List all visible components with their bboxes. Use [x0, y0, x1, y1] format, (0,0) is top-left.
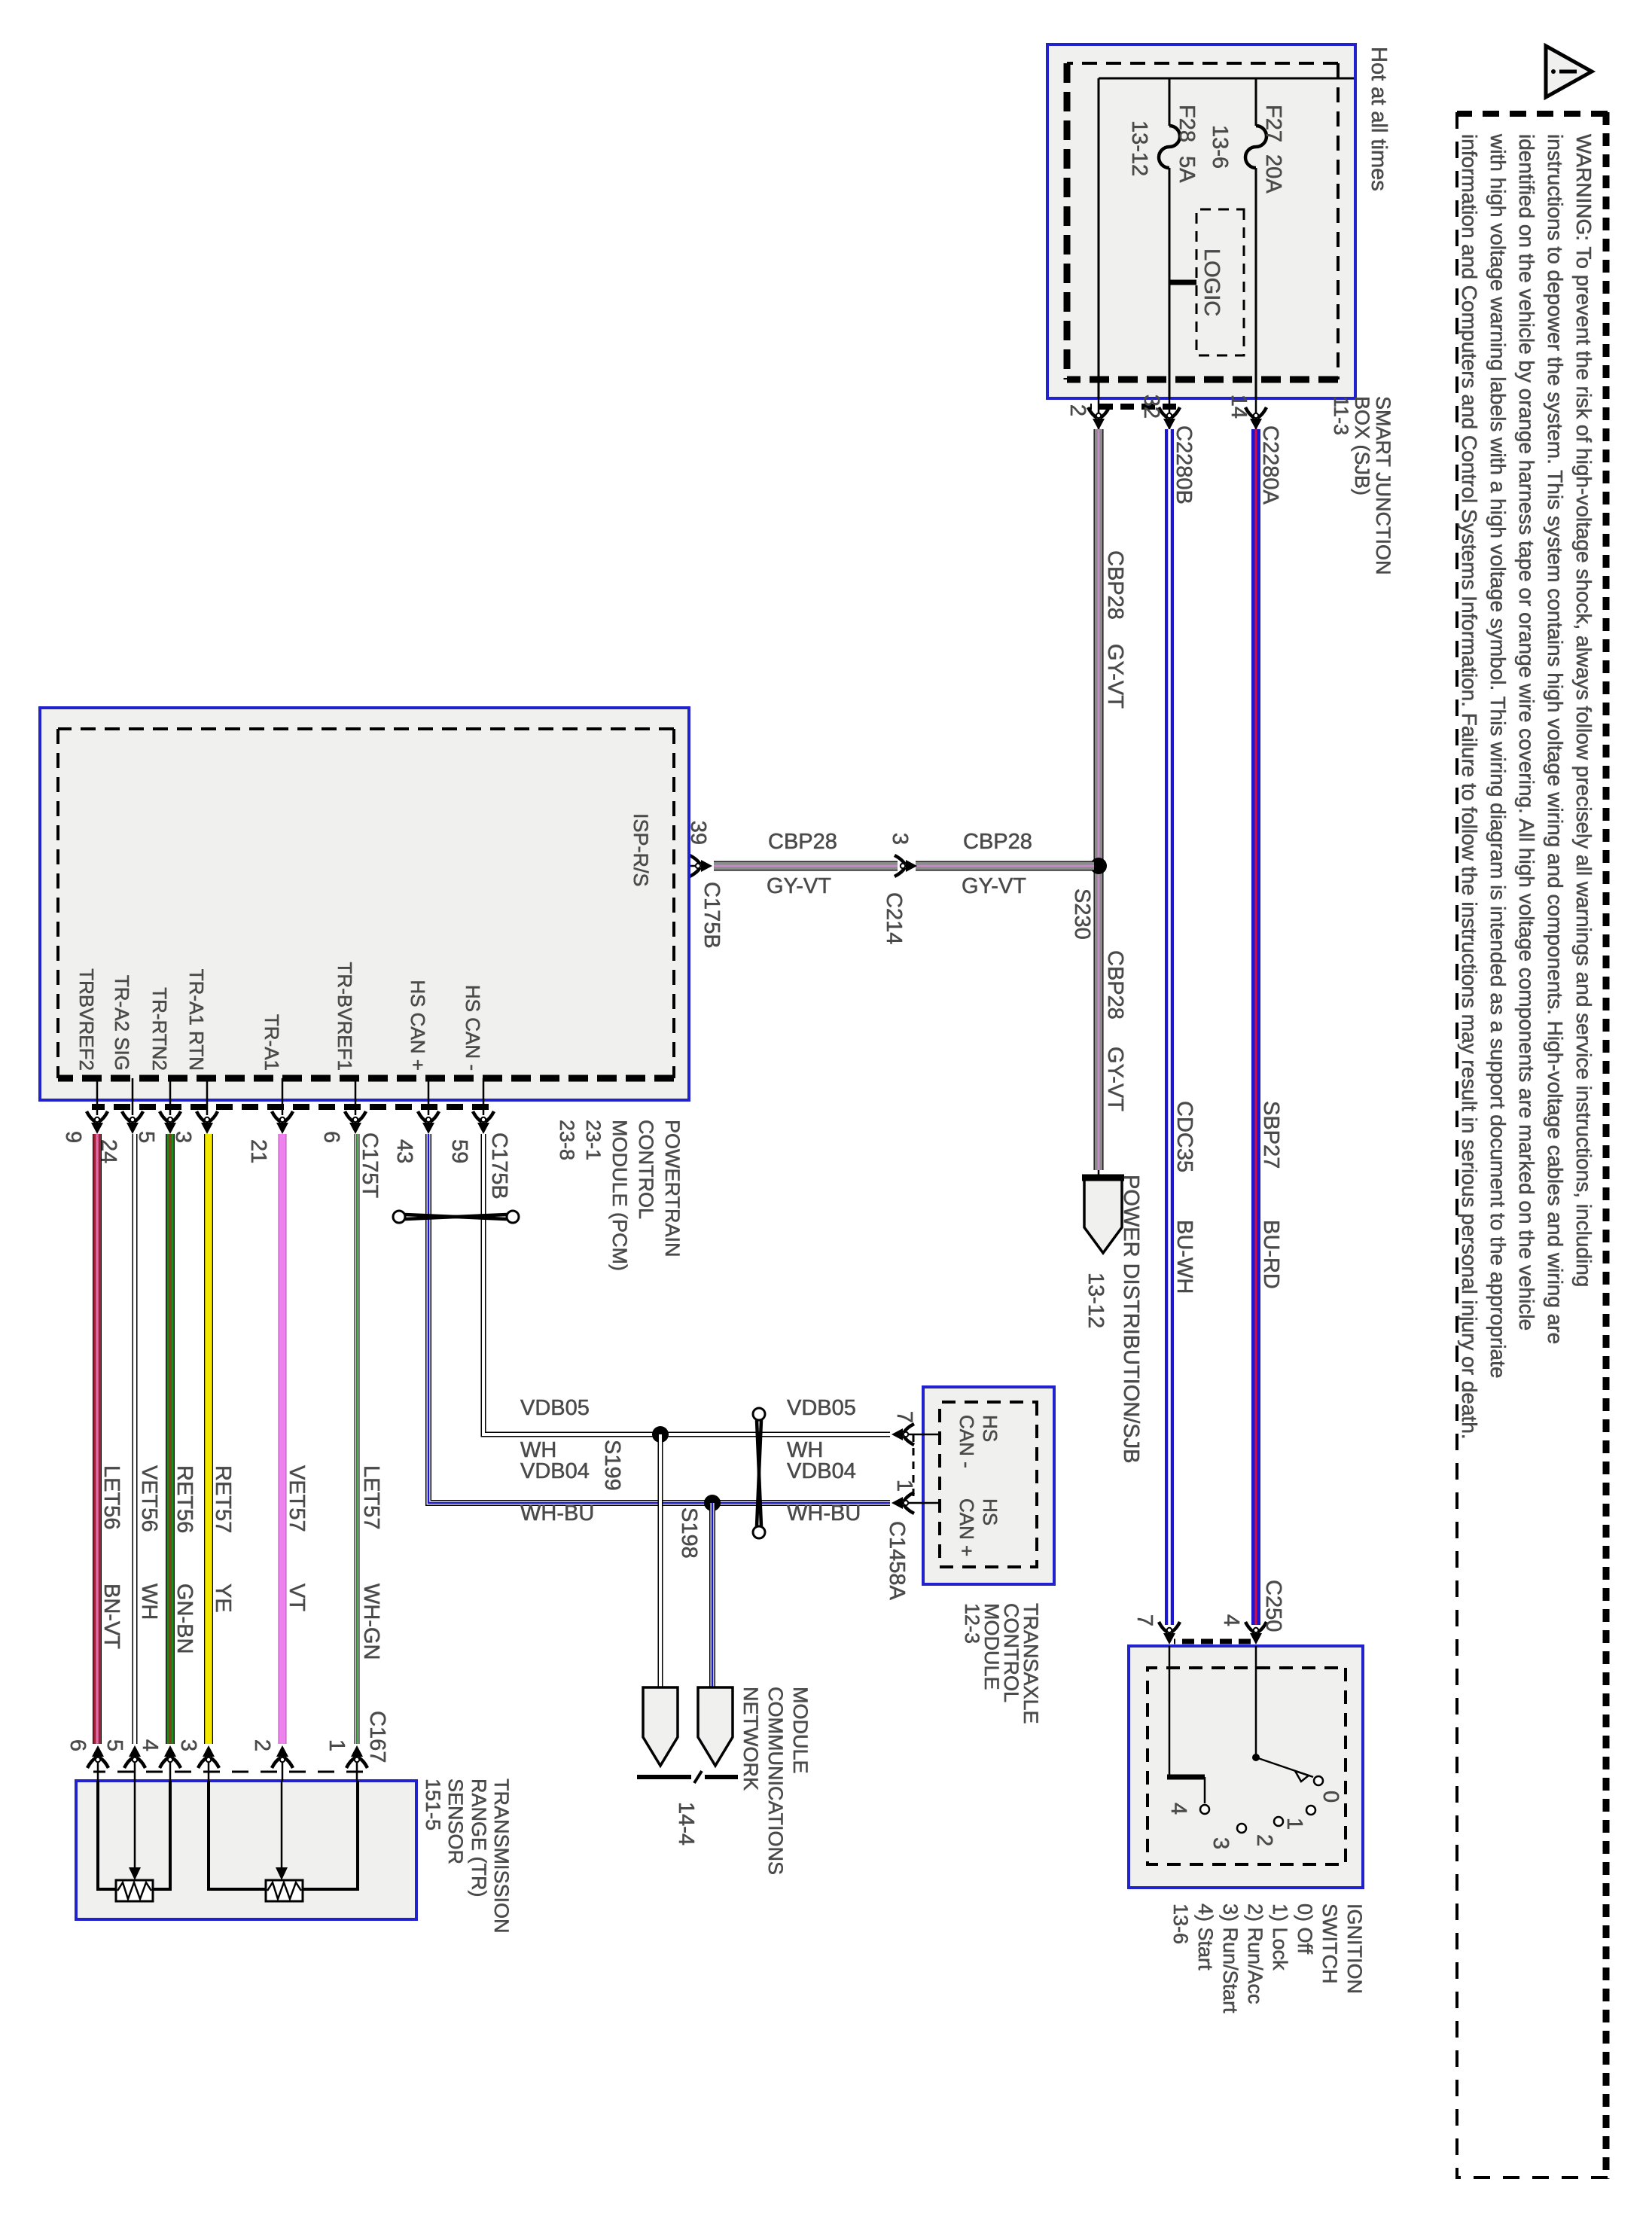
SJB inner dashed border	[1067, 63, 1338, 379]
svg-text:6: 6	[66, 1739, 90, 1751]
svg-text:43: 43	[392, 1139, 416, 1163]
svg-text:5A: 5A	[1175, 156, 1199, 183]
transmission range sensor box	[76, 1781, 416, 1919]
TR sensor connector arrow pin 4	[169, 1754, 172, 1781]
svg-text:Hot at all times: Hot at all times	[1367, 47, 1391, 191]
TR sensor connector arrow pin 2	[282, 1754, 284, 1781]
svg-text:3: 3	[176, 1739, 200, 1751]
svg-text:RANGE (TR): RANGE (TR)	[468, 1779, 490, 1897]
svg-text:C175T: C175T	[358, 1132, 382, 1198]
wire VET57 VT PCM to TR sensor	[279, 1134, 287, 1744]
svg-text:7: 7	[892, 1411, 916, 1423]
svg-text:CBP28: CBP28	[768, 830, 837, 854]
TR sensor connector arrow pin 5	[134, 1754, 136, 1781]
twisted pair crossover 1	[393, 1211, 519, 1223]
svg-text:information and Computers and: information and Computers and Control Sy…	[1458, 134, 1481, 1440]
svg-text:0: 0	[1318, 1791, 1343, 1803]
svg-text:1: 1	[1282, 1818, 1306, 1830]
svg-text:HS CAN +: HS CAN +	[407, 980, 429, 1071]
PCM pin 6 TR-BVREF1	[319, 962, 366, 1144]
svg-text:LET57: LET57	[359, 1465, 383, 1529]
connector arrow ignition pin 7	[1159, 1622, 1180, 1644]
svg-text:2: 2	[1252, 1834, 1276, 1846]
TCM connector dashed line C1458A	[913, 1434, 915, 1503]
svg-text:S199: S199	[600, 1440, 624, 1491]
hot feed bus wire	[1099, 78, 1354, 80]
wire VET56 WH PCM to TR sensor	[133, 1134, 138, 1744]
svg-text:TR-A2 SIG: TR-A2 SIG	[111, 975, 133, 1071]
svg-text:VET57: VET57	[285, 1465, 309, 1532]
wire RET56 GN-BN PCM to TR sensor	[166, 1134, 175, 1744]
label LET56 BN-VT	[99, 1465, 123, 1649]
svg-text:HS: HS	[979, 1498, 1001, 1526]
svg-text:32: 32	[1139, 395, 1163, 419]
svg-text:CAN -: CAN -	[956, 1415, 978, 1468]
svg-text:4) Start: 4) Start	[1194, 1904, 1217, 1971]
svg-text:3) Run/Start: 3) Run/Start	[1219, 1904, 1242, 2013]
svg-text:13-12: 13-12	[1127, 120, 1151, 176]
svg-text:20A: 20A	[1261, 154, 1285, 194]
svg-text:MODULE (PCM): MODULE (PCM)	[608, 1120, 631, 1271]
svg-text:SWITCH: SWITCH	[1318, 1904, 1341, 1983]
switch wiper	[1252, 1754, 1313, 1782]
svg-text:1) Lock: 1) Lock	[1269, 1904, 1291, 1971]
label CDC35 BU-WH	[1172, 1101, 1196, 1294]
switch contact 4	[1200, 1805, 1209, 1814]
fuse F27 20A	[1208, 105, 1285, 194]
svg-text:BU-RD: BU-RD	[1259, 1220, 1283, 1289]
PCM pin 24 TR-A2 SIG	[96, 975, 143, 1163]
svg-text:LOGIC: LOGIC	[1199, 248, 1224, 316]
TR sensor connector arrow pin 1	[356, 1754, 358, 1781]
svg-text:VET56: VET56	[137, 1465, 161, 1532]
svg-text:SBP27: SBP27	[1259, 1101, 1283, 1169]
svg-text:4: 4	[1166, 1803, 1190, 1815]
wire LET56 BN-VT PCM to TR sensor	[93, 1134, 102, 1744]
svg-text:CAN +: CAN +	[956, 1498, 978, 1556]
svg-text:IGNITION: IGNITION	[1343, 1904, 1366, 1994]
off-page arrow module network lower	[643, 1687, 678, 1766]
TR connector dashed line C167	[93, 1771, 363, 1773]
svg-text:12-3: 12-3	[961, 1603, 983, 1644]
wire F28 branch	[1169, 78, 1171, 126]
svg-text:HS CAN -: HS CAN -	[462, 985, 484, 1071]
svg-text:23-8: 23-8	[556, 1120, 578, 1160]
svg-text:C175B: C175B	[487, 1132, 511, 1199]
PCM pin 5 TR-RTN2	[134, 987, 181, 1143]
wire VDB04 WH-BU HS CAN+ PCM to TCM	[428, 1134, 890, 1503]
TCM pin labels	[956, 1415, 1001, 1556]
SJB connector dashed line	[1090, 404, 1176, 410]
svg-text:C214: C214	[882, 892, 906, 944]
labels VDB05 WH lower	[520, 1396, 590, 1462]
svg-text:BU-WH: BU-WH	[1172, 1220, 1196, 1294]
svg-text:SENSOR: SENSOR	[444, 1779, 467, 1864]
svg-text:5: 5	[102, 1739, 126, 1751]
svg-text:3: 3	[888, 833, 912, 845]
switch contact 1	[1306, 1806, 1315, 1815]
svg-text:TRANSMISSION: TRANSMISSION	[490, 1779, 513, 1934]
PCM label block	[556, 1120, 684, 1271]
connector arrow pin 32	[1169, 398, 1171, 431]
connector arrow ignition pin 4 C250	[1245, 1622, 1266, 1644]
label SBP27 BU-RD	[1259, 1101, 1283, 1289]
ignition inner dashed border	[1148, 1668, 1346, 1864]
warning note text	[1458, 133, 1596, 1440]
svg-text:TRBVREF2: TRBVREF2	[75, 968, 98, 1071]
TR internal pin3 wire	[207, 1781, 267, 1889]
transaxle control module TCM box	[923, 1387, 1054, 1584]
warning triangle symbol	[1546, 46, 1592, 97]
logic to F28 stub	[1169, 280, 1196, 285]
svg-text:C2280B: C2280B	[1172, 425, 1196, 504]
svg-text:POWER DISTRIBUTION/SJB: POWER DISTRIBUTION/SJB	[1119, 1175, 1143, 1463]
svg-text:S198: S198	[677, 1507, 701, 1559]
wire pin2 feed	[1098, 78, 1100, 398]
PCM pin 43 HS CAN +	[392, 980, 439, 1163]
svg-text:SMART JUNCTION: SMART JUNCTION	[1372, 396, 1394, 575]
svg-text:WARNING: To prevent the risk o: WARNING: To prevent the risk of high-vol…	[1572, 134, 1596, 1287]
wire LET57 WH-GN PCM to TR sensor	[355, 1134, 360, 1744]
wire RET57 YE PCM to TR sensor	[204, 1134, 213, 1744]
TR internal pin1 wire	[301, 1781, 359, 1889]
wire SBP27 BU-RD SJB to ignition	[1251, 429, 1260, 1625]
PCM pin 59 HS CAN -	[447, 985, 494, 1163]
svg-text:C2280A: C2280A	[1258, 425, 1282, 504]
svg-text:13-6: 13-6	[1208, 125, 1232, 169]
svg-text:14: 14	[1227, 395, 1251, 419]
fuse F28 5A	[1127, 105, 1199, 183]
wire VDB05 WH S199 to network	[658, 1434, 663, 1687]
wire CDC35 BU-WH SJB to ignition	[1165, 429, 1174, 1625]
svg-text:MODULE: MODULE	[980, 1603, 1003, 1690]
wire F27 branch	[1255, 78, 1257, 126]
svg-text:HS: HS	[979, 1415, 1001, 1442]
wire CBP28 GY-VT S230 to C214	[916, 861, 1094, 871]
svg-text:WH: WH	[137, 1583, 161, 1620]
svg-text:4: 4	[138, 1739, 162, 1751]
svg-text:F27: F27	[1261, 105, 1285, 142]
label VET57 VT	[285, 1465, 309, 1611]
wire VDB05 WH HS CAN- PCM to TCM	[483, 1134, 890, 1434]
ignition internal pin4 wire	[1255, 1646, 1257, 1757]
labels VDB05 WH upper	[787, 1396, 856, 1462]
powertrain control module PCM box	[40, 708, 689, 1100]
wire CBP28 GY-VT SJB to S230	[1094, 429, 1104, 866]
svg-text:RET57: RET57	[211, 1465, 235, 1533]
svg-text:151-5: 151-5	[422, 1779, 444, 1830]
ignition switch label block	[1169, 1904, 1366, 2013]
TR sensor connector arrow pin 3	[208, 1754, 210, 1781]
TCM pin 7 stub	[899, 1434, 940, 1436]
switch contact 3	[1237, 1824, 1246, 1833]
svg-text:CDC35: CDC35	[1172, 1101, 1196, 1172]
connector C214 pin 3	[895, 855, 917, 876]
label MODULE COMMUNICATIONS NETWORK	[739, 1687, 812, 1875]
wire CBP28 GY-VT C214 to PCM	[714, 861, 898, 871]
ignition internal pin7 wire	[1167, 1646, 1205, 1803]
TCM inner dashed border	[940, 1402, 1037, 1567]
svg-text:GY-VT: GY-VT	[767, 874, 831, 898]
svg-text:CONTROL: CONTROL	[635, 1120, 657, 1219]
svg-text:VDB04: VDB04	[520, 1459, 590, 1483]
svg-text:11-3: 11-3	[1330, 396, 1352, 435]
svg-text:1: 1	[325, 1739, 349, 1751]
PCM inner dashed border	[58, 729, 674, 1078]
svg-text:21: 21	[246, 1139, 270, 1163]
smart junction box SJB	[1047, 44, 1355, 398]
svg-text:0) Off: 0) Off	[1294, 1904, 1316, 1955]
svg-text:COMMUNICATIONS: COMMUNICATIONS	[764, 1687, 787, 1875]
svg-text:MODULE: MODULE	[789, 1687, 812, 1774]
twisted pair crossover 2	[753, 1408, 765, 1538]
svg-text:BN-VT: BN-VT	[99, 1583, 123, 1649]
svg-text:GY-VT: GY-VT	[962, 874, 1026, 898]
svg-text:VDB04: VDB04	[787, 1459, 856, 1483]
switch contact 0	[1314, 1776, 1323, 1785]
svg-text:3: 3	[1209, 1837, 1233, 1849]
label RET56 GN-BN	[172, 1465, 197, 1654]
connector arrow pin 14	[1255, 398, 1257, 431]
svg-text:VDB05: VDB05	[520, 1396, 590, 1420]
svg-text:BOX (SJB): BOX (SJB)	[1351, 396, 1373, 495]
svg-text:CBP28: CBP28	[1103, 550, 1127, 620]
labels VDB04 WH-BU upper	[787, 1459, 861, 1526]
svg-text:F28: F28	[1175, 105, 1199, 142]
svg-text:GY-VT: GY-VT	[1103, 1047, 1127, 1111]
svg-text:C1458A: C1458A	[885, 1521, 909, 1600]
label LET57 WH-GN	[359, 1465, 383, 1660]
TR internal pin6 wire	[96, 1781, 117, 1889]
junction S230	[1090, 858, 1107, 874]
svg-text:CBP28: CBP28	[1103, 950, 1127, 1020]
label CBP28 GY-VT segment 1	[1103, 550, 1127, 709]
svg-text:YE: YE	[211, 1583, 235, 1613]
svg-text:9: 9	[61, 1131, 85, 1143]
label RET57 YE	[211, 1465, 235, 1613]
label CBP28 GY-VT segment 2	[1103, 950, 1127, 1111]
svg-text:VT: VT	[285, 1583, 309, 1611]
svg-text:C175B: C175B	[700, 882, 724, 949]
SJB label	[1330, 396, 1394, 575]
TR wiper pin5	[129, 1781, 141, 1880]
connector arrow PCM pin 39 C175B	[689, 865, 705, 867]
switch contact 2	[1274, 1817, 1283, 1826]
TR sensor label block	[422, 1779, 513, 1934]
svg-text:ISP-R/S: ISP-R/S	[629, 813, 652, 887]
label VET56 WH	[137, 1465, 161, 1620]
LOGIC block	[1196, 209, 1244, 355]
svg-text:CBP28: CBP28	[963, 830, 1032, 854]
continuation jagged line	[637, 1771, 738, 1783]
TCM pin 1 stub	[899, 1502, 940, 1504]
svg-text:WH-BU: WH-BU	[787, 1501, 861, 1526]
svg-text:CONTROL: CONTROL	[1000, 1603, 1023, 1702]
svg-text:14-4: 14-4	[674, 1802, 698, 1846]
svg-text:instructions to depower the sy: instructions to depower the system. This…	[1544, 134, 1567, 1344]
svg-text:LET56: LET56	[99, 1465, 123, 1529]
svg-text:59: 59	[447, 1139, 471, 1163]
svg-text:2: 2	[1065, 404, 1090, 416]
TR wiper pin2	[276, 1781, 288, 1880]
junction S198	[704, 1495, 721, 1511]
labels CBP28 GY-VT vertical lower	[767, 830, 837, 898]
PCM pin 21 TR-A1	[246, 1014, 293, 1163]
svg-text:6: 6	[319, 1131, 343, 1143]
svg-text:TR-A1: TR-A1	[261, 1014, 283, 1071]
svg-text:5: 5	[134, 1131, 158, 1143]
TCM label block	[961, 1603, 1042, 1724]
off-page arrow module network upper	[698, 1687, 733, 1766]
svg-text:C167: C167	[365, 1711, 389, 1763]
svg-text:NETWORK: NETWORK	[739, 1687, 762, 1791]
svg-text:GN-BN: GN-BN	[172, 1583, 197, 1654]
svg-text:TR-A1 RTN: TR-A1 RTN	[185, 969, 208, 1071]
svg-text:7: 7	[1132, 1614, 1157, 1626]
svg-text:with high voltage warning labe: with high voltage warning labels with a …	[1486, 133, 1510, 1378]
PCM pin 3 TR-A1 RTN	[171, 969, 218, 1143]
ignition connector dashed line	[1174, 1639, 1251, 1644]
svg-text:TR-RTN2: TR-RTN2	[148, 987, 171, 1071]
warning text dashed box	[1457, 112, 1608, 2179]
junction S199	[652, 1426, 669, 1443]
PCM pin 9 TRBVREF2	[61, 968, 108, 1143]
connector arrow pin 2	[1098, 398, 1100, 431]
svg-text:VDB05: VDB05	[787, 1396, 856, 1420]
svg-text:2: 2	[250, 1739, 274, 1751]
wire CBP28 GY-VT S230 to power distribution	[1094, 866, 1104, 1170]
wire VDB04 WH-BU S198 to network	[709, 1503, 715, 1687]
resistor R2	[266, 1880, 303, 1901]
labels CBP28 GY-VT vertical upper	[962, 830, 1032, 898]
TR internal pin4 wire	[151, 1781, 172, 1889]
TR sensor connector arrow pin 6	[97, 1754, 99, 1781]
svg-text:13-12: 13-12	[1084, 1273, 1108, 1328]
ignition switch box	[1129, 1646, 1363, 1888]
PCM connector dashed line C175	[92, 1104, 489, 1110]
svg-text:POWERTRAIN: POWERTRAIN	[661, 1120, 684, 1257]
svg-text:GY-VT: GY-VT	[1103, 644, 1127, 709]
svg-text:WH-GN: WH-GN	[359, 1583, 383, 1660]
svg-text:TR-BVREF1: TR-BVREF1	[334, 962, 356, 1071]
svg-text:WH-BU: WH-BU	[520, 1501, 594, 1526]
labels VDB04 WH-BU lower	[520, 1459, 594, 1526]
svg-text:4: 4	[1219, 1614, 1243, 1626]
svg-text:identified on the vehicle by o: identified on the vehicle by orange harn…	[1515, 134, 1538, 1330]
svg-text:C250: C250	[1261, 1580, 1285, 1632]
svg-text:S230: S230	[1070, 889, 1094, 940]
off-page arrow POWER DISTRIBUTION/SJB	[1082, 1178, 1124, 1253]
svg-text:23-1: 23-1	[582, 1120, 605, 1160]
svg-text:RET56: RET56	[172, 1465, 197, 1533]
svg-text:13-6: 13-6	[1169, 1904, 1192, 1944]
label POWER DISTRIBUTION/SJB 13-12	[1084, 1175, 1143, 1463]
svg-text:TRANSAXLE: TRANSAXLE	[1020, 1603, 1042, 1724]
resistor R1	[116, 1880, 153, 1901]
svg-text:2) Run/Acc: 2) Run/Acc	[1244, 1904, 1266, 2004]
